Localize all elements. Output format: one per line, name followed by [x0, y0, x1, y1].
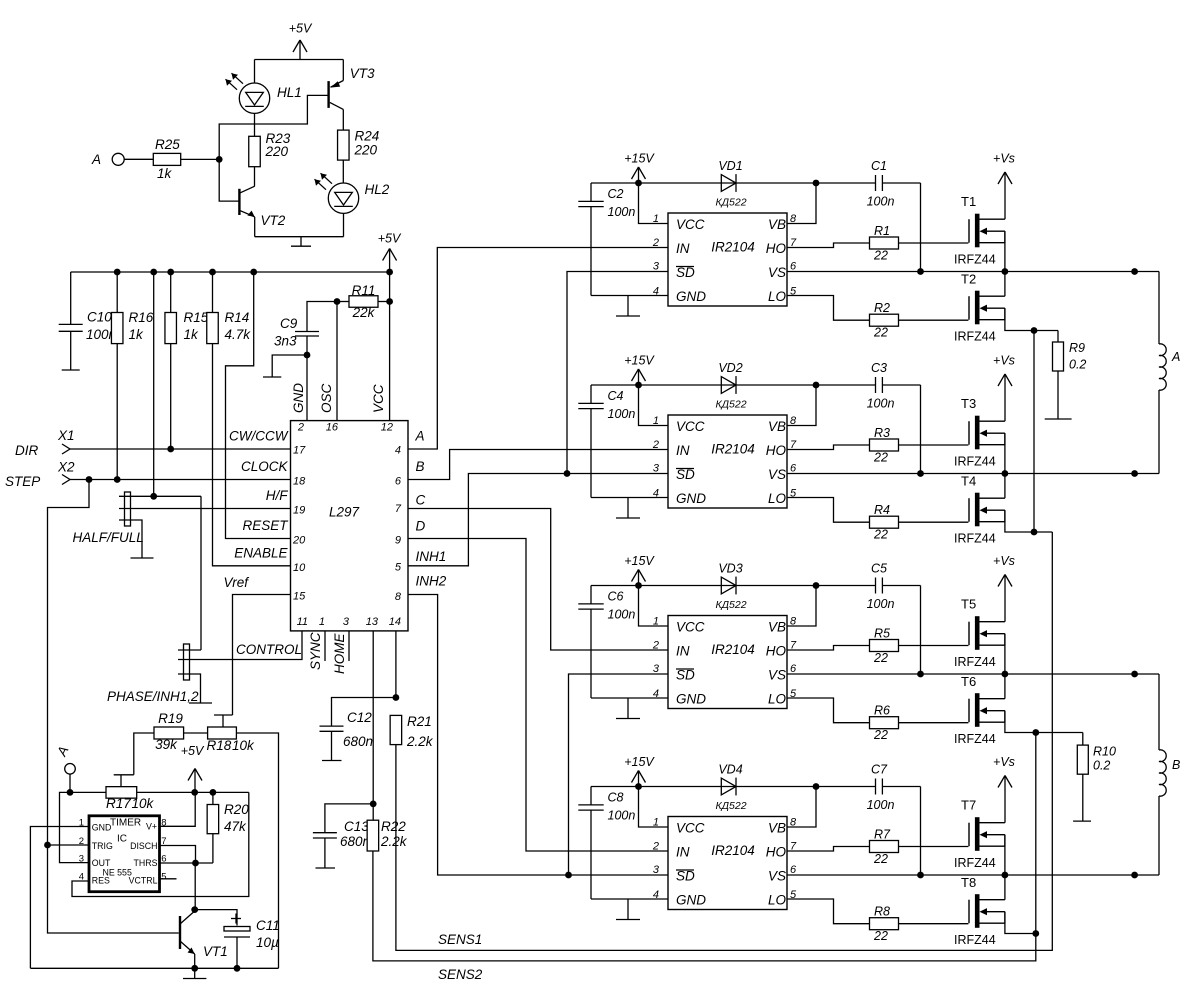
pin5 LO (block 4) — [768, 889, 797, 908]
node VS/C5 (block 3) — [917, 671, 924, 678]
wire T8 drain (block 4) — [1004, 875, 1006, 900]
svg-text:R19: R19 — [158, 711, 183, 726]
transistor T1 IRFZ44 — [969, 214, 1005, 248]
svg-text:IR2104: IR2104 — [711, 843, 755, 858]
pin7 DISCH (555) — [130, 836, 166, 851]
svg-text:R18: R18 — [207, 738, 232, 753]
wire pin16 OSC — [336, 302, 338, 421]
pin6 VS (block 3) — [768, 663, 797, 683]
power +5V (LED circuit) — [289, 22, 313, 60]
resistor R1 22 — [870, 237, 899, 249]
svg-text:R1: R1 — [874, 224, 890, 238]
svg-text:R3: R3 — [874, 426, 890, 440]
svg-text:IRFZ44: IRFZ44 — [954, 253, 996, 267]
capacitor C3 100n — [876, 377, 883, 393]
pin 19 lead H/F — [266, 488, 306, 517]
resistor R7 22 — [870, 841, 899, 853]
svg-text:8: 8 — [790, 817, 797, 829]
node sense A (T4) — [1031, 529, 1038, 536]
pin8 V+ (555) — [146, 818, 167, 832]
transistor T8 IRFZ44 — [969, 894, 1005, 928]
wire T5 source to VS (block 3) — [1004, 634, 1006, 674]
svg-text:A: A — [1171, 350, 1180, 364]
svg-text:1k: 1k — [184, 327, 200, 342]
node +5V/V+ drop — [191, 789, 198, 796]
wire R7 to gate (block 4) — [899, 846, 969, 848]
node C11/ground — [234, 965, 241, 972]
wire collector node to THRS — [194, 863, 196, 910]
svg-text:КД522: КД522 — [715, 399, 746, 411]
svg-text:C4: C4 — [608, 389, 624, 403]
node bus/R16 — [114, 269, 121, 276]
svg-text:VS: VS — [768, 467, 786, 482]
pin8 VB (block 3) — [768, 616, 797, 635]
node VS/T (block 4) — [1002, 872, 1009, 879]
diode VD1 — [721, 174, 736, 192]
power +5V (logic) — [378, 232, 402, 273]
diode VD3 — [721, 577, 736, 595]
wire R8 to gate (block 4) — [899, 923, 969, 925]
wire T4 source — [1005, 510, 1052, 532]
svg-text:7: 7 — [395, 503, 402, 515]
wire HO to R3 (block 2) — [787, 445, 870, 450]
svg-text:22: 22 — [873, 852, 888, 866]
svg-text:6: 6 — [790, 663, 797, 675]
svg-text:2.2k: 2.2k — [380, 834, 408, 849]
svg-text:R25: R25 — [155, 137, 180, 152]
wire STEP to VT1 base — [48, 480, 179, 934]
pin2 TRIG (555) — [79, 836, 113, 851]
capacitor C2 100n — [578, 183, 603, 296]
wire R17 to +5V node — [137, 791, 249, 793]
wire rail to VS (block 2) — [920, 385, 922, 474]
jumper PHASE/INH1,2 — [178, 631, 302, 703]
svg-text:+Vs: +Vs — [993, 152, 1015, 166]
svg-text:3: 3 — [653, 261, 660, 273]
pin 10 lead ENABLE — [234, 546, 306, 575]
svg-text:R21: R21 — [407, 714, 432, 729]
wire T2 drain (block 1) — [1004, 272, 1006, 297]
node VS right (block 4) — [1131, 872, 1138, 879]
pin 5 lead INH1 — [395, 549, 446, 574]
capacitor C8 100n — [578, 787, 603, 900]
svg-text:THRS: THRS — [134, 858, 158, 868]
svg-text:R9: R9 — [1069, 341, 1085, 355]
label R17 10k — [106, 796, 155, 811]
pin5 LO (block 2) — [768, 488, 797, 507]
svg-text:VT2: VT2 — [261, 213, 286, 228]
pin 17 lead CW/CCW — [229, 429, 306, 457]
svg-text:10µ: 10µ — [256, 935, 279, 950]
svg-text:X2: X2 — [57, 460, 75, 475]
svg-text:B: B — [416, 459, 425, 474]
label C12 680n — [343, 710, 373, 749]
pin7 HO (block 4) — [766, 841, 797, 860]
svg-text:SD: SD — [676, 467, 695, 482]
node sense B (T8) — [1032, 930, 1039, 937]
transistor T7 IRFZ44 — [969, 817, 1005, 851]
svg-text:0.2: 0.2 — [1069, 358, 1086, 372]
IC IR2104 (block 4) — [668, 817, 787, 910]
transistor T5 IRFZ44 — [969, 616, 1005, 650]
label R18 10k — [207, 738, 256, 753]
svg-text:47k: 47k — [224, 819, 247, 834]
wire T3 source to VS (block 2) — [1004, 433, 1006, 473]
pin2 IN (block 3) — [652, 640, 690, 659]
node VS/C1 (block 1) — [917, 268, 924, 275]
wire OUT to R17 line — [60, 792, 107, 862]
svg-text:VCC: VCC — [676, 419, 705, 434]
pin4 GND (block 1) — [591, 286, 706, 305]
pin1 VCC (block 1) — [639, 183, 705, 232]
svg-text:КД522: КД522 — [715, 599, 746, 611]
svg-text:2: 2 — [652, 640, 659, 652]
pin5 VCTRL (555) — [129, 872, 167, 886]
svg-text:VD4: VD4 — [718, 763, 742, 777]
svg-text:R16: R16 — [129, 310, 154, 325]
node sense B (T6) — [1032, 729, 1039, 736]
label R15 1k — [184, 310, 209, 342]
capacitor C6 100n — [578, 586, 603, 699]
svg-text:C11: C11 — [256, 918, 280, 933]
node bus/R14 — [209, 269, 216, 276]
svg-text:8: 8 — [395, 591, 402, 603]
wire jumper to phase jumper — [200, 496, 202, 650]
svg-text:CW/CCW: CW/CCW — [229, 429, 289, 444]
wire VB drop (block 4) — [787, 787, 816, 828]
capacitor C1 100n — [876, 175, 883, 191]
svg-text:+5V: +5V — [289, 22, 313, 36]
label C13 680n — [340, 819, 370, 849]
ground (LED circuit) — [291, 237, 311, 247]
capacitor C5 100n — [876, 578, 883, 594]
svg-text:VD1: VD1 — [718, 159, 742, 173]
capacitor C11 10u — [195, 910, 250, 969]
capacitor C10 — [59, 272, 83, 370]
svg-text:C8: C8 — [608, 791, 624, 805]
svg-text:C2: C2 — [608, 187, 624, 201]
transistor T6 IRFZ44 — [969, 693, 1005, 727]
svg-text:C7: C7 — [871, 763, 888, 777]
svg-text:3: 3 — [343, 616, 350, 628]
wire INH1 net (pin5 to SD1/SD2) — [408, 474, 668, 566]
svg-text:+15V: +15V — [624, 152, 655, 166]
svg-text:1: 1 — [319, 616, 325, 628]
pin5 LO (block 3) — [768, 688, 797, 707]
label R24 220 — [354, 129, 380, 158]
wire T2 source to R9 — [1005, 308, 1058, 330]
resistor R5 22 — [870, 640, 899, 652]
power +15V (block 1) — [624, 152, 655, 184]
svg-text:КД522: КД522 — [715, 800, 746, 812]
svg-text:+5V: +5V — [181, 744, 205, 758]
svg-text:T7: T7 — [961, 798, 976, 813]
wire pin2 GND — [306, 355, 308, 421]
resistor R6 22 — [870, 717, 899, 729]
resistor R25 — [153, 153, 180, 165]
svg-text:HOME: HOME — [332, 633, 347, 674]
wire T4 drain (block 2) — [1004, 474, 1006, 499]
svg-text:VCC: VCC — [371, 384, 386, 413]
label C6 100n — [608, 590, 636, 622]
pin 9 lead D — [395, 519, 426, 547]
capacitor C4 100n — [578, 385, 603, 498]
node INH2/SD3 — [565, 872, 572, 879]
svg-text:B: B — [1172, 758, 1180, 772]
wire VT3 base — [219, 95, 328, 159]
svg-text:TRIG: TRIG — [92, 841, 113, 851]
wire T8 source — [1005, 912, 1036, 934]
IC NE555 timer — [89, 816, 160, 892]
svg-text:V+: V+ — [146, 822, 157, 832]
svg-text:PHASE/INH1,2: PHASE/INH1,2 — [107, 689, 199, 704]
node VT1 emitter/ground — [191, 965, 198, 972]
node VS/T (block 3) — [1002, 671, 1009, 678]
ground (block 1) — [616, 296, 640, 317]
pin3 SD (block 1) — [653, 261, 695, 281]
svg-text:R20: R20 — [224, 802, 249, 817]
svg-text:22k: 22k — [352, 305, 376, 320]
svg-text:22: 22 — [873, 528, 888, 542]
node OSC/R11 — [334, 298, 341, 305]
IC L297 — [291, 421, 409, 631]
wire LO to R2 (block 1) — [787, 296, 870, 321]
svg-text:R15: R15 — [184, 310, 209, 325]
svg-text:HALF/FULL: HALF/FULL — [73, 530, 144, 545]
svg-text:9: 9 — [395, 535, 401, 547]
node bus/VCC — [386, 269, 393, 276]
svg-text:1k: 1k — [157, 166, 173, 181]
pin 18 lead CLOCK — [241, 459, 306, 488]
svg-text:18: 18 — [293, 476, 306, 488]
svg-text:0.2: 0.2 — [1093, 759, 1110, 773]
svg-text:220: 220 — [354, 143, 378, 158]
label R14 4.7k — [225, 310, 252, 342]
label C9 3n3 — [274, 316, 298, 349]
svg-text:IC: IC — [117, 834, 127, 845]
power +15V (block 2) — [624, 354, 655, 386]
svg-text:100n: 100n — [867, 195, 895, 209]
LED HL1 — [226, 60, 270, 137]
wire R3 to gate (block 2) — [899, 444, 969, 446]
wire rail to VS (block 4) — [920, 787, 922, 876]
svg-text:22: 22 — [873, 451, 888, 465]
resistor R2 22 — [870, 314, 899, 326]
label R9 0.2 — [1069, 341, 1086, 372]
wire +15V rail (block 3) — [591, 585, 921, 587]
ground (VT1) — [183, 968, 206, 978]
ground (C12) — [322, 760, 342, 762]
svg-text:HL1: HL1 — [277, 85, 302, 100]
power +Vs (block 4) — [993, 755, 1015, 823]
svg-text:C: C — [416, 493, 426, 508]
pin3 SD (block 4) — [653, 864, 695, 884]
label C10 100n — [86, 310, 116, 343]
node INH1/SD1 — [564, 470, 571, 477]
pin8 VB (block 4) — [768, 817, 797, 836]
svg-text:VB: VB — [768, 419, 786, 434]
svg-text:HO: HO — [766, 644, 787, 659]
pin 15 lead Vref — [223, 575, 306, 603]
svg-text:4: 4 — [79, 872, 84, 883]
ground (half/full jumper) — [131, 557, 154, 559]
svg-text:C10: C10 — [87, 310, 112, 325]
svg-text:22: 22 — [873, 728, 888, 742]
label R25 1k — [155, 137, 180, 181]
wire VS line (block 1) — [787, 271, 1159, 273]
svg-text:LO: LO — [768, 491, 787, 506]
wire D net (pin9 to IN4) — [408, 539, 668, 852]
IC IR2104 (block 3) — [668, 616, 787, 709]
wire SENS2 — [373, 851, 1036, 982]
svg-text:10: 10 — [293, 562, 306, 574]
power +15V (block 3) — [624, 554, 655, 586]
capacitor C13 — [313, 804, 373, 868]
svg-text:R8: R8 — [874, 905, 890, 919]
node rail/+15V arrow (block 4) — [635, 783, 642, 790]
pin 4 lead A — [395, 429, 425, 457]
resistor R10 0.2 — [1077, 733, 1088, 822]
resistor R23 — [249, 136, 261, 186]
wire VB drop (block 3) — [787, 586, 816, 627]
node DIR/R15 — [167, 446, 174, 453]
svg-text:DIR: DIR — [15, 443, 39, 458]
svg-text:HO: HO — [766, 241, 787, 256]
svg-text:IR2104: IR2104 — [711, 442, 755, 457]
pin 1 number SYNC — [308, 616, 325, 670]
svg-text:VB: VB — [768, 620, 786, 635]
transistor T2 IRFZ44 — [969, 291, 1005, 325]
svg-text:T2: T2 — [961, 272, 976, 287]
input DIR X1 — [15, 428, 291, 458]
svg-text:GND: GND — [291, 383, 306, 413]
svg-text:L297: L297 — [329, 505, 360, 520]
wire HO to R7 (block 4) — [787, 847, 870, 852]
svg-text:13: 13 — [366, 616, 379, 628]
pin6 VS (block 4) — [768, 864, 797, 884]
wire T6 drain (block 3) — [1004, 674, 1006, 699]
svg-text:R6: R6 — [874, 704, 890, 718]
node VS/C3 (block 2) — [917, 470, 924, 477]
resistor R15 — [165, 272, 177, 449]
wire sense B vertical — [1035, 733, 1037, 934]
svg-text:220: 220 — [265, 144, 289, 159]
svg-text:100n: 100n — [608, 608, 636, 622]
svg-text:R17: R17 — [106, 796, 131, 811]
svg-text:IRFZ44: IRFZ44 — [954, 732, 996, 746]
svg-text:R5: R5 — [874, 627, 890, 641]
capacitor C7 100n — [876, 779, 883, 795]
svg-text:INH1: INH1 — [416, 549, 447, 564]
power +Vs (block 2) — [993, 354, 1015, 422]
node sense A (T2) — [1031, 327, 1038, 334]
jumper HALF/FULL — [119, 492, 291, 558]
svg-text:T8: T8 — [961, 875, 976, 890]
svg-text:8: 8 — [790, 213, 797, 225]
resistor R11 22k — [337, 296, 390, 308]
wire VT2 base — [219, 159, 239, 201]
wire LO to R4 (block 2) — [787, 498, 870, 523]
node bus/reset drop — [250, 269, 257, 276]
node pin13/R22/C13 — [370, 801, 377, 808]
pin1 VCC (block 4) — [639, 787, 705, 836]
svg-text:A: A — [91, 152, 101, 167]
svg-text:100n: 100n — [608, 809, 636, 823]
svg-text:STEP: STEP — [5, 474, 40, 489]
IC IR2104 (block 1) — [668, 213, 787, 306]
svg-text:10k: 10k — [132, 796, 155, 811]
svg-text:100n: 100n — [867, 597, 895, 611]
svg-text:HO: HO — [766, 443, 787, 458]
wire T7 source to VS (block 4) — [1004, 835, 1006, 875]
svg-text:R4: R4 — [874, 503, 890, 517]
svg-text:680n: 680n — [343, 734, 373, 749]
power +Vs (block 3) — [993, 554, 1015, 622]
svg-text:CONTROL: CONTROL — [236, 642, 302, 657]
node DISCH/THRS — [192, 860, 199, 867]
svg-text:15: 15 — [293, 591, 306, 603]
pin8 VB (block 2) — [768, 415, 797, 434]
svg-text:3n3: 3n3 — [274, 334, 297, 349]
svg-text:14: 14 — [389, 616, 401, 628]
svg-text:Vref: Vref — [223, 575, 249, 590]
svg-text:CLOCK: CLOCK — [241, 459, 289, 474]
svg-text:100n: 100n — [867, 397, 895, 411]
wire TRIG — [48, 844, 90, 846]
ground (R9) — [1045, 418, 1072, 420]
wire VCTRL stub — [160, 878, 177, 880]
svg-text:SD: SD — [676, 265, 695, 280]
svg-text:2: 2 — [652, 237, 659, 249]
svg-text:SENS2: SENS2 — [438, 967, 483, 982]
wire R18 right rail — [236, 733, 278, 968]
svg-text:VCC: VCC — [676, 620, 705, 635]
wire ground line (555) — [30, 967, 278, 969]
node bus/R15 — [167, 269, 174, 276]
node VS right (block 1) — [1131, 268, 1138, 275]
label R10 0.2 — [1093, 745, 1116, 773]
label C8 100n — [608, 791, 636, 823]
svg-text:HO: HO — [766, 845, 787, 860]
svg-text:+Vs: +Vs — [993, 554, 1015, 568]
wire VB drop (block 1) — [787, 183, 816, 224]
svg-text:VB: VB — [768, 821, 786, 836]
svg-text:VB: VB — [768, 217, 786, 232]
svg-text:D: D — [416, 519, 426, 534]
pin5 LO (block 1) — [768, 286, 797, 305]
svg-text:3: 3 — [653, 663, 660, 675]
svg-text:680n: 680n — [340, 834, 370, 849]
ground (C13) — [316, 867, 336, 869]
resistor R3 22 — [870, 439, 899, 451]
wire +5V node to RES return — [72, 792, 249, 896]
wire SENS1 — [396, 532, 1052, 950]
pin3 OUT (555) — [79, 854, 111, 869]
wire Vref to R18 tap — [233, 595, 291, 716]
svg-text:SD: SD — [676, 869, 695, 884]
resistor R20 47k — [207, 792, 219, 863]
diode VD2 — [721, 376, 736, 394]
wire THRS / R20 — [160, 862, 213, 864]
wire LO to R8 (block 4) — [787, 899, 870, 924]
svg-text:C9: C9 — [280, 316, 298, 331]
inductor winding B — [1159, 674, 1166, 875]
transistor VT3 — [327, 60, 343, 131]
wire VS line (block 2) — [787, 473, 1159, 475]
svg-text:+Vs: +Vs — [993, 354, 1015, 368]
pin4 GND (block 4) — [591, 889, 706, 908]
wire R5 to gate (block 3) — [899, 645, 969, 647]
